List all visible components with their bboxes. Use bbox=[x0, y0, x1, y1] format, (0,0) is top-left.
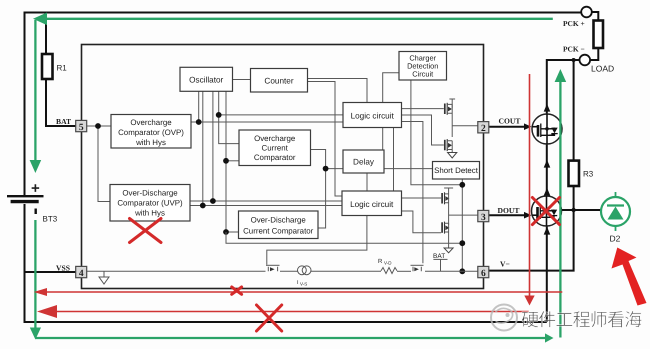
svg-text:Logic circuit: Logic circuit bbox=[351, 111, 395, 120]
svg-text:Oscillator: Oscillator bbox=[189, 76, 223, 85]
svg-text:Delay: Delay bbox=[353, 158, 375, 167]
svg-text:R3: R3 bbox=[583, 170, 594, 179]
svg-text:Comparator (UVP): Comparator (UVP) bbox=[117, 199, 183, 208]
svg-text:2: 2 bbox=[481, 124, 486, 134]
svg-text:Circuit: Circuit bbox=[412, 70, 433, 79]
svg-text:Over-Discharge: Over-Discharge bbox=[251, 216, 307, 225]
svg-text:Overcharge: Overcharge bbox=[130, 118, 172, 127]
svg-text:V−: V− bbox=[500, 260, 510, 269]
svg-text:5: 5 bbox=[79, 123, 84, 133]
svg-text:BT3: BT3 bbox=[43, 215, 58, 224]
svg-text:R: R bbox=[378, 258, 383, 265]
svg-text:3: 3 bbox=[481, 213, 486, 223]
svg-text:Current Comparator: Current Comparator bbox=[243, 227, 314, 236]
svg-text:硬件工程师看海: 硬件工程师看海 bbox=[521, 310, 642, 330]
svg-text:Short Detect: Short Detect bbox=[434, 166, 479, 175]
svg-text:Counter: Counter bbox=[264, 77, 293, 86]
svg-text:with Hys: with Hys bbox=[135, 138, 166, 147]
svg-text:PCK +: PCK + bbox=[563, 19, 585, 28]
svg-text:Comparator: Comparator bbox=[254, 153, 296, 162]
svg-text:LOAD: LOAD bbox=[591, 64, 614, 74]
svg-text:6: 6 bbox=[481, 269, 486, 279]
svg-text:COUT: COUT bbox=[499, 117, 521, 126]
svg-text:PCK −: PCK − bbox=[563, 45, 585, 54]
svg-text:Logic circuit: Logic circuit bbox=[350, 200, 394, 209]
svg-text:Over-Discharge: Over-Discharge bbox=[122, 189, 178, 198]
svg-text:Overcharge: Overcharge bbox=[254, 134, 296, 143]
svg-text:with Hys: with Hys bbox=[134, 209, 165, 218]
svg-text:D2: D2 bbox=[610, 234, 621, 244]
svg-text:V-D: V-D bbox=[384, 261, 392, 266]
svg-text:BAT: BAT bbox=[56, 117, 71, 126]
svg-text:VSS: VSS bbox=[56, 264, 70, 273]
svg-text:Comparator (OVP): Comparator (OVP) bbox=[118, 128, 184, 137]
svg-text:+: + bbox=[31, 180, 40, 197]
svg-text:Current: Current bbox=[262, 144, 289, 153]
svg-text:DOUT: DOUT bbox=[498, 206, 520, 215]
svg-text:4: 4 bbox=[79, 269, 84, 279]
svg-text:R1: R1 bbox=[57, 64, 68, 73]
svg-text:V-S: V-S bbox=[300, 282, 307, 287]
